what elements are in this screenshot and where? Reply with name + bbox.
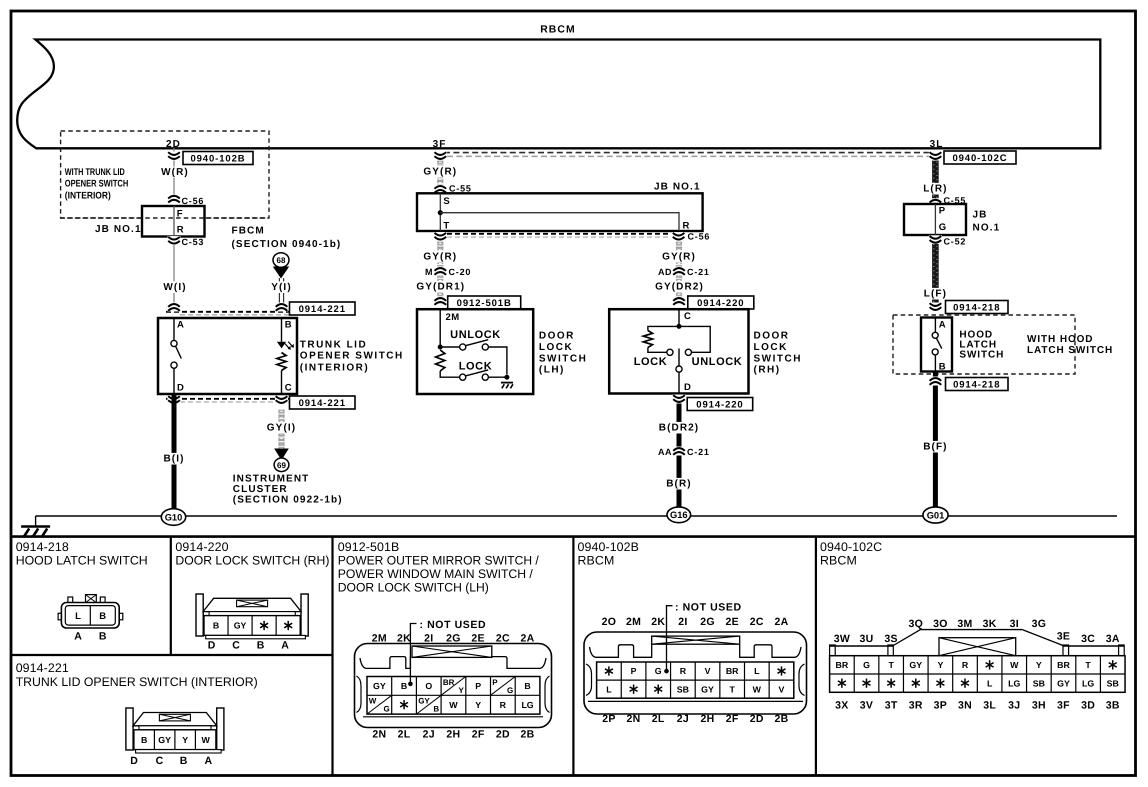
connector row 0914-221 (top) bbox=[166, 302, 355, 315]
svg-text:C-21: C-21 bbox=[687, 447, 710, 457]
svg-text:2E: 2E bbox=[471, 633, 484, 645]
svg-text:B: B bbox=[257, 640, 265, 652]
svg-text:LATCH SWITCH: LATCH SWITCH bbox=[1027, 345, 1113, 356]
svg-text:P: P bbox=[492, 678, 498, 687]
svg-text:C-52: C-52 bbox=[944, 236, 967, 246]
svg-text:D: D bbox=[208, 640, 216, 652]
svg-text:(SECTION 0940-1b): (SECTION 0940-1b) bbox=[232, 239, 342, 250]
ground G10 bbox=[161, 509, 185, 526]
svg-text:3R: 3R bbox=[909, 700, 923, 712]
svg-text:S: S bbox=[443, 196, 450, 207]
connector chevron at 3F bbox=[434, 152, 447, 161]
svg-text:G: G bbox=[655, 666, 662, 676]
svg-text:0940-102B: 0940-102B bbox=[190, 153, 245, 164]
svg-text:0914-221: 0914-221 bbox=[299, 304, 346, 315]
connector face 0914-218 bbox=[58, 595, 123, 643]
arrow from FBCM bbox=[273, 267, 289, 279]
connector row 0914-221 (bottom) bbox=[166, 396, 355, 410]
svg-text:R: R bbox=[500, 700, 507, 710]
svg-text:2J: 2J bbox=[677, 713, 689, 725]
connector AA / C-21 chevron bbox=[658, 447, 710, 458]
wire L(R) from 3L bbox=[934, 160, 937, 200]
svg-text:LOCK: LOCK bbox=[539, 342, 573, 353]
connector C-53 chevron bbox=[168, 236, 205, 247]
connector label 0940-102B bbox=[183, 152, 253, 165]
svg-text:CLUSTER: CLUSTER bbox=[233, 484, 288, 495]
svg-text:0914-221: 0914-221 bbox=[299, 398, 346, 409]
svg-text:V: V bbox=[779, 684, 785, 694]
svg-text:C-56: C-56 bbox=[182, 196, 205, 206]
wire label B(R) bbox=[665, 478, 694, 490]
table header 0914-218 HOOD LATCH SWITCH bbox=[16, 540, 148, 568]
pin labels 0940-102C top bbox=[834, 618, 1120, 645]
connector chevron below RH switch bbox=[673, 395, 686, 404]
connector M / C-20 chevron bbox=[425, 267, 471, 278]
svg-text:3U: 3U bbox=[860, 633, 874, 645]
svg-text:R: R bbox=[962, 660, 969, 670]
svg-text:B: B bbox=[141, 735, 147, 745]
label DOOR LOCK SWITCH (RH) bbox=[754, 331, 802, 376]
wire GY(R) to C-20 bbox=[422, 241, 459, 297]
svg-text:UNLOCK: UNLOCK bbox=[450, 329, 501, 341]
svg-text:B: B bbox=[213, 621, 219, 631]
svg-text:0912-501B: 0912-501B bbox=[338, 540, 400, 554]
svg-text:UNLOCK: UNLOCK bbox=[692, 356, 743, 368]
svg-text:OPENER SWITCH: OPENER SWITCH bbox=[65, 179, 129, 190]
svg-text:G16: G16 bbox=[670, 510, 688, 520]
svg-text:2J: 2J bbox=[423, 729, 435, 741]
harness dashed line 3F to 3L bbox=[444, 153, 931, 157]
connector chevron below hood latch bbox=[929, 377, 942, 386]
wire B(DR2)/B(R) bbox=[677, 394, 682, 509]
svg-text:2F: 2F bbox=[472, 729, 485, 741]
svg-text:2E: 2E bbox=[725, 616, 738, 628]
wire W(R) from RBCM 2D bbox=[173, 148, 175, 196]
svg-text:NO.1: NO.1 bbox=[973, 223, 1001, 234]
svg-text:G10: G10 bbox=[165, 512, 183, 522]
svg-text:0940-102C: 0940-102C bbox=[820, 540, 882, 554]
svg-text:2C: 2C bbox=[496, 633, 510, 645]
svg-text:0914-220: 0914-220 bbox=[696, 399, 743, 410]
svg-text:C: C bbox=[684, 311, 691, 322]
INSTRUMENT CLUSTER reference bbox=[233, 474, 343, 506]
svg-text:3A: 3A bbox=[1106, 633, 1120, 645]
svg-text:(INTERIOR): (INTERIOR) bbox=[300, 362, 369, 373]
svg-text:AA: AA bbox=[658, 447, 672, 457]
svg-text:T: T bbox=[729, 684, 735, 694]
table header 0940-102C RBCM bbox=[820, 540, 882, 568]
wire label B(DR2) bbox=[657, 422, 701, 434]
svg-text:2N: 2N bbox=[627, 713, 641, 725]
note WITH TRUNK LID OPENER SWITCH (INTERIOR) bbox=[65, 167, 129, 201]
connector label 0940-102C bbox=[944, 151, 1016, 164]
svg-text:3N: 3N bbox=[958, 700, 972, 712]
wire label GY(DR2) bbox=[654, 281, 705, 293]
svg-text:O: O bbox=[425, 681, 432, 691]
svg-text:2N: 2N bbox=[372, 729, 386, 741]
svg-text:BR: BR bbox=[1057, 660, 1070, 670]
svg-text:L: L bbox=[987, 678, 993, 688]
svg-text:C-21: C-21 bbox=[687, 267, 710, 277]
connector chevron at 2D bbox=[168, 152, 181, 161]
svg-text:JB NO.1: JB NO.1 bbox=[95, 224, 142, 235]
svg-text:AD: AD bbox=[658, 267, 672, 277]
pin labels 0912-501B bottom bbox=[372, 729, 534, 741]
label TRUNK LID OPENER SWITCH (INTERIOR) bbox=[300, 339, 404, 373]
svg-text:D: D bbox=[130, 755, 138, 767]
connector face 0940-102C bbox=[830, 630, 1125, 693]
svg-text:A: A bbox=[74, 631, 82, 643]
svg-text:A: A bbox=[281, 640, 289, 652]
svg-text:C-20: C-20 bbox=[449, 267, 472, 277]
svg-text:B(F): B(F) bbox=[923, 442, 947, 453]
svg-text:W: W bbox=[1010, 660, 1019, 670]
svg-text:C-55: C-55 bbox=[449, 183, 472, 193]
svg-text:LG: LG bbox=[521, 700, 533, 710]
svg-text:2M: 2M bbox=[372, 633, 387, 645]
svg-text:TRUNK LID OPENER SWITCH (INTER: TRUNK LID OPENER SWITCH (INTERIOR) bbox=[16, 675, 258, 689]
callout NOT USED 0940-102B bbox=[664, 601, 741, 673]
svg-text:3D: 3D bbox=[1081, 700, 1095, 712]
connector C-52 chevron bbox=[929, 235, 966, 246]
svg-text:R: R bbox=[683, 221, 690, 232]
svg-text:D: D bbox=[684, 382, 691, 393]
table header 0940-102B RBCM bbox=[578, 540, 640, 568]
connector AD / C-21 chevron bbox=[658, 267, 710, 278]
svg-text:2B: 2B bbox=[521, 729, 535, 741]
svg-text:W: W bbox=[449, 700, 458, 710]
svg-text:3O: 3O bbox=[933, 618, 948, 630]
svg-text:GY: GY bbox=[418, 697, 430, 706]
svg-text:Y: Y bbox=[937, 660, 943, 670]
svg-text:GY(DR1): GY(DR1) bbox=[416, 282, 465, 293]
svg-text:L: L bbox=[754, 666, 760, 676]
table header 0912-501B bbox=[338, 540, 540, 595]
svg-text:3W: 3W bbox=[834, 633, 850, 645]
svg-text:2D: 2D bbox=[496, 729, 510, 741]
connector label 0914-218 (lower) bbox=[946, 378, 1009, 391]
svg-text:BR: BR bbox=[443, 678, 455, 687]
svg-text:2I: 2I bbox=[678, 616, 687, 628]
dashed option box WITH HOOD LATCH SWITCH bbox=[893, 315, 1075, 374]
svg-text:G: G bbox=[939, 222, 947, 233]
wire L(F) bbox=[922, 244, 948, 303]
note WITH HOOD LATCH SWITCH bbox=[1027, 334, 1113, 356]
wire label L(R) bbox=[922, 183, 949, 195]
svg-text:FBCM: FBCM bbox=[232, 226, 265, 237]
svg-text:P: P bbox=[631, 666, 637, 676]
svg-text:GY(DR2): GY(DR2) bbox=[655, 282, 704, 293]
svg-text:2H: 2H bbox=[446, 729, 460, 741]
svg-text:A: A bbox=[177, 320, 184, 331]
connector chevron at 3L bbox=[929, 152, 942, 161]
svg-text:B: B bbox=[285, 320, 292, 331]
svg-text:W(I): W(I) bbox=[163, 282, 186, 293]
svg-text:C-53: C-53 bbox=[182, 237, 205, 247]
circuit tag 68 bbox=[273, 253, 289, 268]
svg-text:3P: 3P bbox=[934, 700, 947, 712]
svg-text:BR: BR bbox=[726, 666, 739, 676]
wire W(I) bbox=[161, 245, 189, 304]
svg-text:LG: LG bbox=[1008, 678, 1020, 688]
svg-text:3F: 3F bbox=[1057, 700, 1070, 712]
svg-text:TRUNK LID: TRUNK LID bbox=[300, 339, 367, 350]
svg-text:0914-220: 0914-220 bbox=[697, 298, 744, 309]
label HOOD LATCH SWITCH bbox=[959, 329, 1004, 360]
svg-text:SB: SB bbox=[1107, 678, 1119, 688]
svg-text:R: R bbox=[177, 224, 184, 235]
ground symbol bbox=[21, 527, 50, 537]
svg-text:0940-102B: 0940-102B bbox=[578, 540, 640, 554]
ground G16 bbox=[667, 507, 691, 523]
svg-text:T: T bbox=[1085, 660, 1091, 670]
wire Y(I) bbox=[269, 278, 295, 304]
svg-text:RBCM: RBCM bbox=[540, 25, 576, 36]
pin labels 0940-102B bottom bbox=[602, 713, 788, 725]
svg-text:GY: GY bbox=[373, 681, 386, 691]
svg-text:C: C bbox=[285, 383, 292, 394]
svg-text:2C: 2C bbox=[750, 616, 764, 628]
svg-text:68: 68 bbox=[277, 256, 286, 265]
switch DOOR LOCK SWITCH (LH) bbox=[417, 309, 533, 394]
svg-text:L: L bbox=[606, 684, 612, 694]
wire B(F) bbox=[922, 372, 949, 509]
wire GY(R) to C-21 bbox=[661, 241, 698, 297]
svg-text:0914-220: 0914-220 bbox=[175, 540, 228, 554]
connector face 0914-221 bbox=[126, 708, 224, 767]
connector C-55 chevron bbox=[434, 183, 472, 193]
connector label 0914-220 (lower) bbox=[687, 398, 753, 411]
svg-text:W(R): W(R) bbox=[161, 167, 189, 178]
svg-text:POWER WINDOW MAIN SWITCH /: POWER WINDOW MAIN SWITCH / bbox=[338, 567, 534, 581]
svg-text:B: B bbox=[401, 681, 407, 691]
svg-text:B(DR2): B(DR2) bbox=[659, 423, 700, 434]
switch HOOD LATCH SWITCH bbox=[921, 318, 952, 373]
svg-text:GY(R): GY(R) bbox=[423, 252, 457, 263]
connector row C-56 below JB bbox=[434, 232, 710, 242]
svg-text:LOCK: LOCK bbox=[754, 342, 788, 353]
svg-text:B: B bbox=[433, 705, 439, 714]
svg-text:3J: 3J bbox=[1008, 700, 1020, 712]
svg-text:0914-218: 0914-218 bbox=[953, 379, 1000, 390]
svg-text:DOOR LOCK SWITCH (LH): DOOR LOCK SWITCH (LH) bbox=[338, 581, 489, 595]
svg-text:2I: 2I bbox=[424, 633, 433, 645]
svg-text:(RH): (RH) bbox=[754, 365, 781, 376]
svg-text:SB: SB bbox=[677, 684, 689, 694]
svg-text:GY: GY bbox=[234, 621, 247, 631]
svg-text:0940-102C: 0940-102C bbox=[952, 153, 1007, 164]
svg-text:JB NO.1: JB NO.1 bbox=[654, 182, 701, 193]
svg-text:RBCM: RBCM bbox=[820, 554, 857, 568]
svg-text:Y(I): Y(I) bbox=[271, 282, 292, 293]
dashed option box bottom edge through JB box bbox=[61, 217, 269, 219]
connector label 0914-220 bbox=[688, 296, 754, 309]
svg-text:B: B bbox=[99, 611, 106, 622]
connector face 0914-220 bbox=[196, 594, 308, 652]
svg-text:GY: GY bbox=[158, 735, 171, 745]
svg-text:(SECTION 0922-1b): (SECTION 0922-1b) bbox=[233, 495, 343, 506]
connector chevron at 0912-501B bbox=[434, 297, 447, 306]
connector C-55 chevron (right) bbox=[929, 196, 966, 208]
svg-text:M: M bbox=[425, 267, 433, 277]
svg-text:L(F): L(F) bbox=[924, 289, 947, 300]
svg-text:3B: 3B bbox=[1106, 700, 1120, 712]
svg-text:RBCM: RBCM bbox=[578, 554, 615, 568]
ground bus wire bbox=[36, 515, 1117, 517]
svg-text:G01: G01 bbox=[927, 510, 945, 520]
connector label 0912-501B bbox=[448, 296, 521, 309]
svg-text:JB: JB bbox=[973, 210, 988, 221]
svg-text:(LH): (LH) bbox=[539, 365, 565, 376]
pin labels 0940-102B top bbox=[602, 616, 789, 628]
svg-text:G: G bbox=[863, 660, 870, 670]
table header 0914-220 DOOR LOCK SWITCH (RH) bbox=[175, 540, 329, 568]
svg-text:3T: 3T bbox=[885, 700, 898, 712]
svg-text:B: B bbox=[524, 681, 530, 691]
svg-text:B(I): B(I) bbox=[163, 454, 184, 465]
wire B(I) bbox=[161, 394, 187, 510]
svg-text:3C: 3C bbox=[1081, 633, 1095, 645]
svg-text:2O: 2O bbox=[602, 616, 617, 628]
svg-text:(INTERIOR): (INTERIOR) bbox=[65, 190, 111, 201]
svg-text:Y: Y bbox=[475, 700, 481, 710]
connector face 0940-102B bbox=[584, 632, 807, 714]
circuit tag 69 bbox=[274, 458, 289, 472]
svg-text:3K: 3K bbox=[983, 618, 997, 630]
ground G01 bbox=[923, 507, 948, 523]
junction block JB NO.1 (right) bbox=[904, 204, 1000, 235]
pin labels 0912-501B top bbox=[372, 633, 535, 645]
svg-text:69: 69 bbox=[277, 461, 286, 470]
svg-text:C: C bbox=[232, 640, 240, 652]
module RBCM bbox=[17, 25, 1100, 149]
svg-text:T: T bbox=[443, 221, 449, 232]
svg-text:2L: 2L bbox=[652, 713, 665, 725]
svg-text:LOCK: LOCK bbox=[634, 356, 668, 368]
connector chevron at 0914-218 bbox=[929, 303, 942, 312]
svg-text:2M: 2M bbox=[626, 616, 641, 628]
svg-text:0914-221: 0914-221 bbox=[16, 661, 69, 675]
svg-text:3X: 3X bbox=[835, 700, 848, 712]
svg-text:P: P bbox=[939, 206, 946, 217]
connector face 0912-501B bbox=[355, 644, 552, 728]
svg-text:B(R): B(R) bbox=[666, 479, 692, 490]
svg-text:3L: 3L bbox=[930, 139, 944, 150]
svg-text:2F: 2F bbox=[726, 713, 739, 725]
svg-text:SWITCH: SWITCH bbox=[539, 353, 587, 364]
svg-text:DOOR: DOOR bbox=[539, 331, 575, 342]
svg-text:L(R): L(R) bbox=[923, 184, 947, 195]
wire GY(R) from 3F bbox=[437, 160, 443, 186]
svg-text:DOOR: DOOR bbox=[754, 331, 790, 342]
svg-text:POWER OUTER MIRROR SWITCH /: POWER OUTER MIRROR SWITCH / bbox=[338, 554, 540, 568]
svg-text:2D: 2D bbox=[166, 139, 181, 150]
svg-text:BR: BR bbox=[836, 660, 849, 670]
wire label GY(R) bbox=[422, 166, 459, 178]
svg-text:B: B bbox=[180, 755, 188, 767]
label DOOR LOCK SWITCH (LH) bbox=[539, 331, 587, 376]
svg-text:SWITCH: SWITCH bbox=[959, 350, 1004, 361]
svg-text:: NOT USED: : NOT USED bbox=[420, 619, 487, 631]
svg-text:3S: 3S bbox=[884, 633, 897, 645]
svg-text:G: G bbox=[507, 686, 513, 695]
svg-text:W: W bbox=[201, 735, 210, 745]
arrow to instrument cluster bbox=[274, 449, 289, 461]
svg-text:INSTRUMENT: INSTRUMENT bbox=[233, 474, 310, 485]
FBCM reference bbox=[232, 226, 342, 250]
svg-text:GY: GY bbox=[909, 660, 922, 670]
svg-text:3G: 3G bbox=[1032, 618, 1047, 630]
svg-text:T: T bbox=[888, 660, 894, 670]
svg-text:GY(R): GY(R) bbox=[423, 167, 457, 178]
svg-text:P: P bbox=[475, 681, 481, 691]
svg-text:2B: 2B bbox=[774, 713, 788, 725]
svg-text:0914-218: 0914-218 bbox=[16, 540, 69, 554]
node 2D bbox=[166, 139, 181, 150]
pin labels 0940-102C bottom bbox=[835, 700, 1120, 712]
svg-text:GY: GY bbox=[701, 684, 714, 694]
svg-text:L: L bbox=[75, 611, 81, 622]
connector chevron at 0914-220 bbox=[673, 297, 686, 306]
svg-text:2P: 2P bbox=[602, 713, 615, 725]
node 3F bbox=[433, 139, 447, 150]
svg-text:HOOD LATCH SWITCH: HOOD LATCH SWITCH bbox=[16, 554, 148, 568]
svg-text:3F: 3F bbox=[433, 139, 447, 150]
svg-text:LG: LG bbox=[1082, 678, 1094, 688]
svg-text:2H: 2H bbox=[701, 713, 715, 725]
svg-text:A: A bbox=[939, 319, 946, 330]
svg-text:DOOR LOCK SWITCH (RH): DOOR LOCK SWITCH (RH) bbox=[175, 554, 329, 568]
svg-text:G: G bbox=[383, 705, 389, 714]
svg-text:B: B bbox=[939, 361, 946, 372]
connector label 0914-218 (upper) bbox=[946, 301, 1009, 314]
svg-text:3V: 3V bbox=[860, 700, 873, 712]
svg-text:WITH TRUNK LID: WITH TRUNK LID bbox=[65, 167, 125, 178]
switch TRUNK LID OPENER SWITCH (INTERIOR) bbox=[158, 318, 297, 394]
svg-text:W: W bbox=[369, 697, 377, 706]
svg-text:D: D bbox=[177, 383, 184, 394]
svg-text:2G: 2G bbox=[700, 616, 715, 628]
junction block JB NO.1 (middle) bbox=[417, 182, 703, 232]
table header 0914-221 TRUNK LID OPENER SWITCH (INTERIOR) bbox=[16, 661, 258, 689]
svg-text:SWITCH: SWITCH bbox=[754, 353, 802, 364]
svg-text:2K: 2K bbox=[397, 633, 411, 645]
node 3L bbox=[930, 139, 944, 150]
svg-text:Y: Y bbox=[1036, 660, 1042, 670]
svg-text:3H: 3H bbox=[1032, 700, 1046, 712]
wire label W(R) bbox=[160, 166, 191, 178]
svg-text:3I: 3I bbox=[1010, 618, 1019, 630]
svg-text:GY(I): GY(I) bbox=[267, 423, 296, 434]
svg-text:Y: Y bbox=[458, 686, 464, 695]
svg-text:2A: 2A bbox=[521, 633, 535, 645]
svg-text:2A: 2A bbox=[774, 616, 788, 628]
connector C-56 chevron bbox=[168, 194, 205, 206]
svg-text:GY: GY bbox=[1057, 678, 1070, 688]
svg-text:3M: 3M bbox=[957, 618, 972, 630]
table grid lines bbox=[11, 537, 1136, 776]
svg-text:SB: SB bbox=[1033, 678, 1045, 688]
wire label GY(DR1) bbox=[415, 281, 466, 293]
svg-text:C: C bbox=[156, 755, 164, 767]
svg-text:R: R bbox=[680, 666, 687, 676]
svg-text:2K: 2K bbox=[651, 616, 665, 628]
svg-text:0914-218: 0914-218 bbox=[953, 302, 1000, 313]
svg-text:3Q: 3Q bbox=[908, 618, 923, 630]
callout NOT USED 0912-501B bbox=[408, 619, 486, 686]
switch DOOR LOCK SWITCH (RH) bbox=[609, 309, 748, 393]
junction block JB NO.1 (left) bbox=[95, 206, 205, 237]
